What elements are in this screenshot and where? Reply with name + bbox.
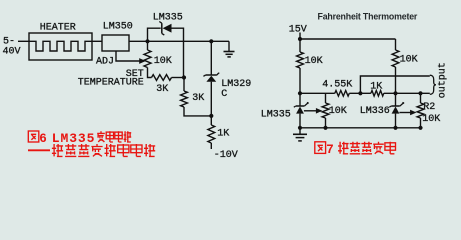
sensor D1 LM335 zener bar — [159, 22, 164, 36]
wire sensor row — [300, 92, 335, 94]
wire junction to 3K vertical — [183, 78, 185, 92]
heater HTR1 box — [29, 33, 92, 60]
node supply 5-40V label — [3, 37, 21, 58]
regulator U1 LM350 box — [102, 35, 129, 51]
wire 10K to sensor node — [299, 68, 301, 106]
potentiometer 10K calibrate — [322, 103, 329, 118]
caption line2 hanzi 6 — [118, 145, 129, 153]
resistor 4.55K — [335, 91, 350, 97]
node junction 1K left — [358, 91, 362, 95]
resistor 10K left — [297, 52, 304, 68]
node junction bottom pot — [323, 126, 327, 130]
reference D4 LM336 triangle — [392, 107, 400, 114]
node junction R2 top — [418, 91, 422, 95]
svg-text:LM335: LM335 — [153, 12, 183, 23]
svg-text:output: output — [438, 62, 449, 98]
svg-text:10K: 10K — [329, 106, 347, 117]
node junction rail-pot — [145, 39, 149, 43]
caption line2 hanzi 2 — [65, 144, 76, 156]
svg-text:LM335: LM335 — [52, 131, 96, 146]
wire pot 10K bottom — [325, 118, 327, 128]
node junction rail-LM329 — [209, 39, 213, 43]
wire 1K to -10V — [210, 143, 212, 149]
wire 4.55K to 1K — [349, 92, 371, 94]
svg-text:3K: 3K — [192, 93, 204, 104]
wire R2 bottom — [420, 118, 422, 128]
caption line2 hanzi 1 — [52, 144, 63, 156]
svg-text:C: C — [221, 89, 227, 100]
wire 3K bottom to LM329 anode — [184, 107, 211, 116]
svg-text:15V: 15V — [289, 25, 307, 36]
svg-text:7: 7 — [326, 143, 334, 157]
wire 15V stub — [299, 33, 301, 53]
svg-text:LM335: LM335 — [261, 109, 291, 120]
wire LM329 junction to 1K — [210, 116, 212, 125]
ground at rail right — [224, 41, 235, 57]
caption dash — [28, 149, 50, 151]
wire LM350 ADJ to pot wiper — [116, 51, 140, 61]
node junction bottom LM336 — [393, 126, 397, 130]
caption fig7 hanzi 2 — [350, 142, 361, 154]
sensor D3 LM335 triangle — [296, 107, 304, 114]
svg-text:LM350: LM350 — [103, 22, 133, 33]
svg-text:R2: R2 — [423, 102, 435, 113]
wire LM335 loop right down to 3K junction — [172, 28, 184, 77]
svg-text:4.55K: 4.55K — [322, 79, 352, 90]
wire pot 10K top — [325, 93, 327, 103]
svg-text:10K: 10K — [422, 114, 440, 125]
arrow wiper into R 10K pot — [139, 58, 146, 64]
wire LM329 to anode junction — [210, 82, 212, 116]
caption line2 hanzi 4 — [91, 144, 102, 156]
wire LM335 loop left — [148, 28, 161, 41]
wire 3K to junction — [172, 77, 185, 79]
node junction sensor row left — [298, 91, 302, 95]
node junction bottom R2 — [418, 126, 422, 130]
reference D2 LM329 triangle — [206, 76, 216, 82]
wire pot10K wiper arrow line — [304, 110, 317, 112]
node junction bottom left — [298, 126, 302, 130]
wire LM335 to bottom rail — [299, 114, 301, 128]
wire rail to LM329 — [210, 41, 212, 75]
reference D2 LM329 zener bar — [203, 73, 219, 76]
svg-text:40V: 40V — [3, 47, 21, 58]
reference D4 LM336 bar — [389, 102, 404, 107]
caption fig6 hanzi dian — [115, 132, 122, 139]
caption fig6 hanzi yong — [106, 132, 113, 139]
svg-text:10K: 10K — [305, 56, 323, 67]
caption fig6 hanzi lu — [124, 131, 132, 142]
node junction 3K — [182, 75, 186, 79]
svg-text:10K: 10K — [154, 56, 172, 67]
wire LM336 to bottom rail — [395, 114, 397, 128]
wire rail LM350 to ground corner — [129, 40, 229, 42]
svg-text:HEATER: HEATER — [40, 22, 76, 33]
wire pot bottom to 3K — [148, 68, 152, 78]
svg-text:3K: 3K — [156, 84, 168, 95]
resistor 1K — [208, 125, 215, 143]
output brace — [430, 75, 436, 94]
caption line2 hanzi 5 — [105, 144, 116, 156]
wire heater to LM350 — [92, 40, 102, 42]
caption fig7 hanzi 5 — [385, 143, 396, 150]
potentiometer 10K set-temperature — [144, 50, 151, 68]
resistor 1K output — [371, 91, 384, 97]
svg-text:-10V: -10V — [214, 150, 238, 161]
node junction 15V rail — [298, 37, 302, 41]
wire right branch top — [395, 39, 397, 50]
svg-text:ADJ: ADJ — [96, 57, 114, 68]
heater element square-wave — [29, 41, 92, 51]
svg-text:10K: 10K — [400, 54, 418, 65]
caption fig7 hanzi 1 — [338, 142, 349, 154]
resistor 10K right — [392, 50, 399, 67]
caption fig7 hanzi tu — [315, 142, 326, 154]
sensor D3 LM335 bar — [294, 102, 309, 107]
caption line2 hanzi 3 — [78, 144, 89, 156]
resistor 3K vertical — [181, 91, 188, 107]
caption fig7 hanzi 4 — [373, 142, 384, 154]
wire 1K to output — [384, 92, 430, 94]
svg-text:6: 6 — [39, 132, 47, 146]
svg-text:LM336: LM336 — [360, 106, 390, 117]
svg-text:TEMPERATURE: TEMPERATURE — [78, 78, 144, 89]
caption line2 hanzi 8 — [144, 144, 155, 156]
caption fig6 hanzi ying — [97, 131, 105, 142]
wire R2 wiper arrow line — [399, 112, 410, 114]
caption fig6 hanzi tu — [28, 131, 39, 142]
wire output upper tap — [360, 76, 429, 93]
caption fig7 hanzi 3 — [361, 142, 372, 154]
svg-text:Fahrenheit Thermometer: Fahrenheit Thermometer — [318, 11, 418, 21]
caption line2 hanzi 7 — [131, 145, 142, 153]
arrow pot10K wiper — [316, 108, 322, 114]
wire supply to heater — [18, 40, 29, 42]
wire top rail — [300, 38, 396, 40]
potentiometer R2 10K — [417, 103, 424, 118]
sensor D1 LM335 triangle — [163, 24, 172, 33]
wire right branch through output row — [395, 67, 397, 106]
arrow R2 wiper — [410, 110, 416, 116]
wire bottom rail — [300, 127, 421, 129]
svg-text:1K: 1K — [217, 128, 229, 139]
resistor 3K horizontal — [152, 75, 172, 81]
ground right circuit — [293, 128, 307, 141]
node junction right branch row — [393, 91, 397, 95]
wire R2 top — [420, 93, 422, 103]
svg-text:1K: 1K — [370, 81, 382, 92]
node junction LM329 anode — [209, 114, 213, 118]
wire pot top — [147, 41, 149, 50]
